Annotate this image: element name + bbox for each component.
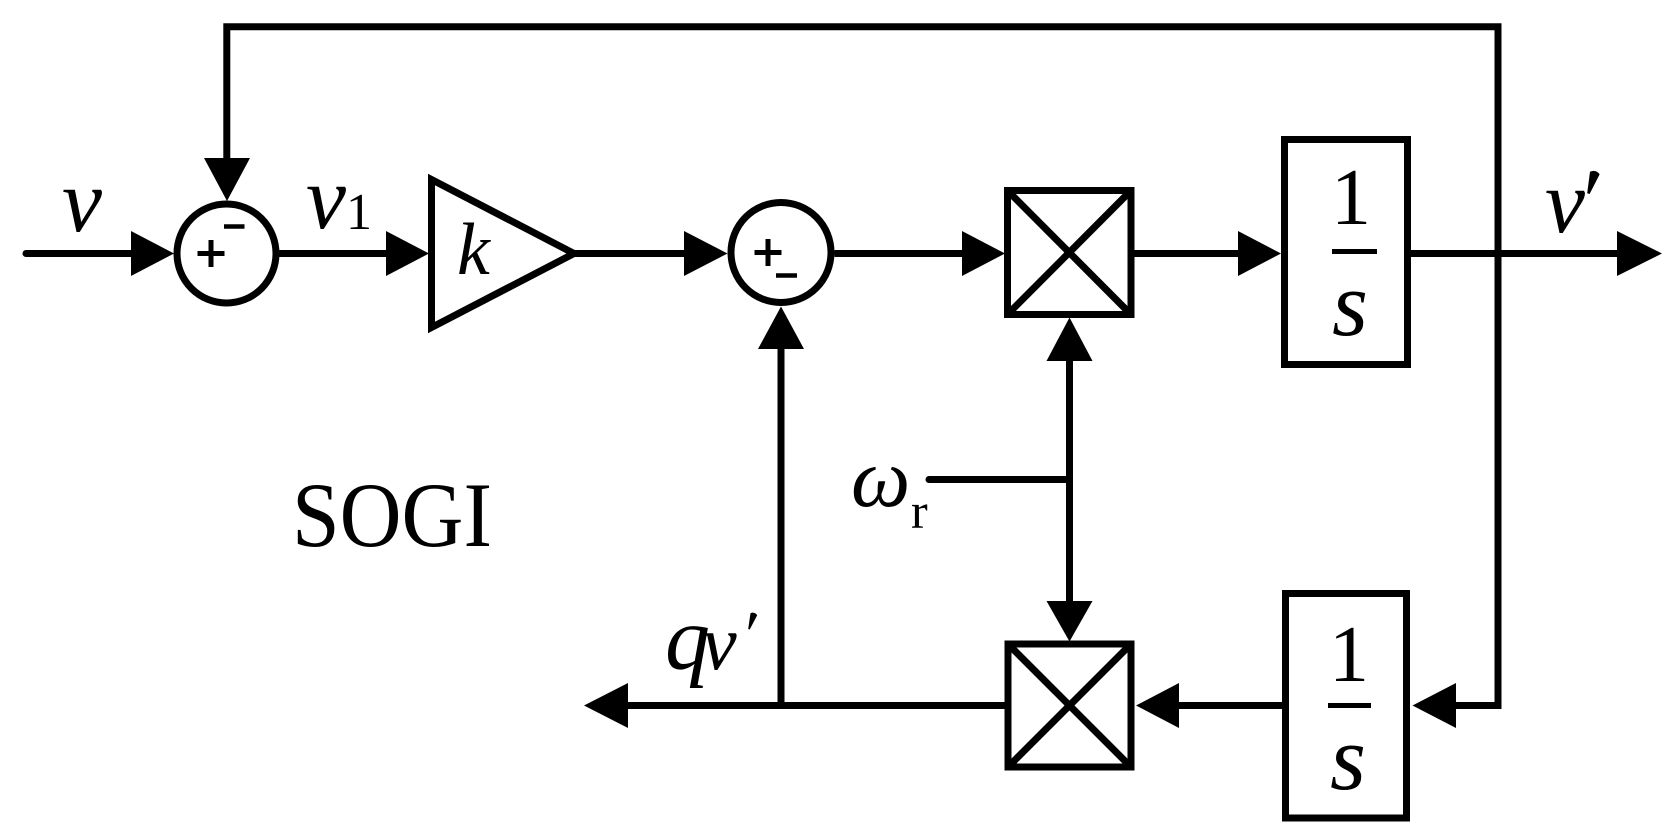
svg-text:1: 1 xyxy=(1329,611,1369,699)
arrowhead: omega_r up into M1 bottom xyxy=(1047,318,1093,362)
wire: omega_r horizontal lead xyxy=(929,476,1070,483)
wire: top feedback loop from node v' down-right side into integrator U2 xyxy=(227,27,1498,706)
svg-text:ω: ω xyxy=(851,432,910,525)
arrowhead: into summing junction S2 xyxy=(684,231,728,276)
wire: integrator U1 output v' xyxy=(1411,250,1618,257)
svg-text:k: k xyxy=(457,209,491,291)
S1 minus sign xyxy=(224,224,245,229)
integrator U2 (1/s bottom) xyxy=(1286,594,1407,819)
svg-text:s: s xyxy=(1332,253,1368,355)
arrowhead: v' output to the right xyxy=(1617,231,1662,276)
arrowhead: feedback into integrator U2 right side xyxy=(1413,683,1457,728)
svg-text:SOGI: SOGI xyxy=(292,464,492,566)
svg-text:1: 1 xyxy=(1331,154,1371,242)
S1 plus sign xyxy=(198,240,225,267)
svg-text:r: r xyxy=(911,483,928,539)
integrator U1 (1/s top) xyxy=(1285,140,1408,365)
svg-text:v1: v1 xyxy=(306,149,372,248)
arrowhead: into multiplier M1 xyxy=(962,231,1005,276)
wire: omega_r distribution vertical xyxy=(1066,361,1073,601)
multiplier M2 (box with X) xyxy=(1008,644,1131,767)
S2 plus sign xyxy=(755,239,782,266)
wire: qv' branch up into S2 minus input xyxy=(778,349,785,706)
svg-text:v: v xyxy=(702,599,737,686)
wire: S1 output to gain K xyxy=(279,250,387,257)
summing junction S2 xyxy=(731,203,831,303)
multiplier M1 (box with X) xyxy=(1008,191,1132,315)
gain block K (triangle) xyxy=(432,180,575,328)
arrowhead: input v into summing junction S1 xyxy=(131,231,174,276)
wire: S2 output to multiplier M1 xyxy=(835,250,964,257)
svg-text:v: v xyxy=(1545,153,1585,252)
arrowhead: qv' output to the left xyxy=(584,683,628,728)
wire: qv' output line xyxy=(628,702,1005,709)
arrowhead: qv' into S2 bottom xyxy=(758,307,804,350)
S2 minus sign xyxy=(776,273,797,278)
summing junction S1 xyxy=(177,204,276,303)
arrowhead: feedback into summing junction S1 (minus input, top) xyxy=(204,158,250,201)
arrowhead: omega_r down into M2 top xyxy=(1047,601,1093,642)
wire: gain K to summing junction S2 xyxy=(575,250,685,257)
svg-text:s: s xyxy=(1330,707,1366,809)
wire: integrator U2 output to multiplier M2 xyxy=(1178,702,1283,709)
wire: multiplier M1 to integrator U1 xyxy=(1135,250,1240,257)
arrowhead: into integrator U1 xyxy=(1238,231,1281,276)
arrowhead: into gain K xyxy=(386,231,429,276)
wire: input v xyxy=(26,250,133,257)
arrowhead: into M2 right side xyxy=(1136,683,1179,728)
svg-text:v: v xyxy=(62,152,102,251)
